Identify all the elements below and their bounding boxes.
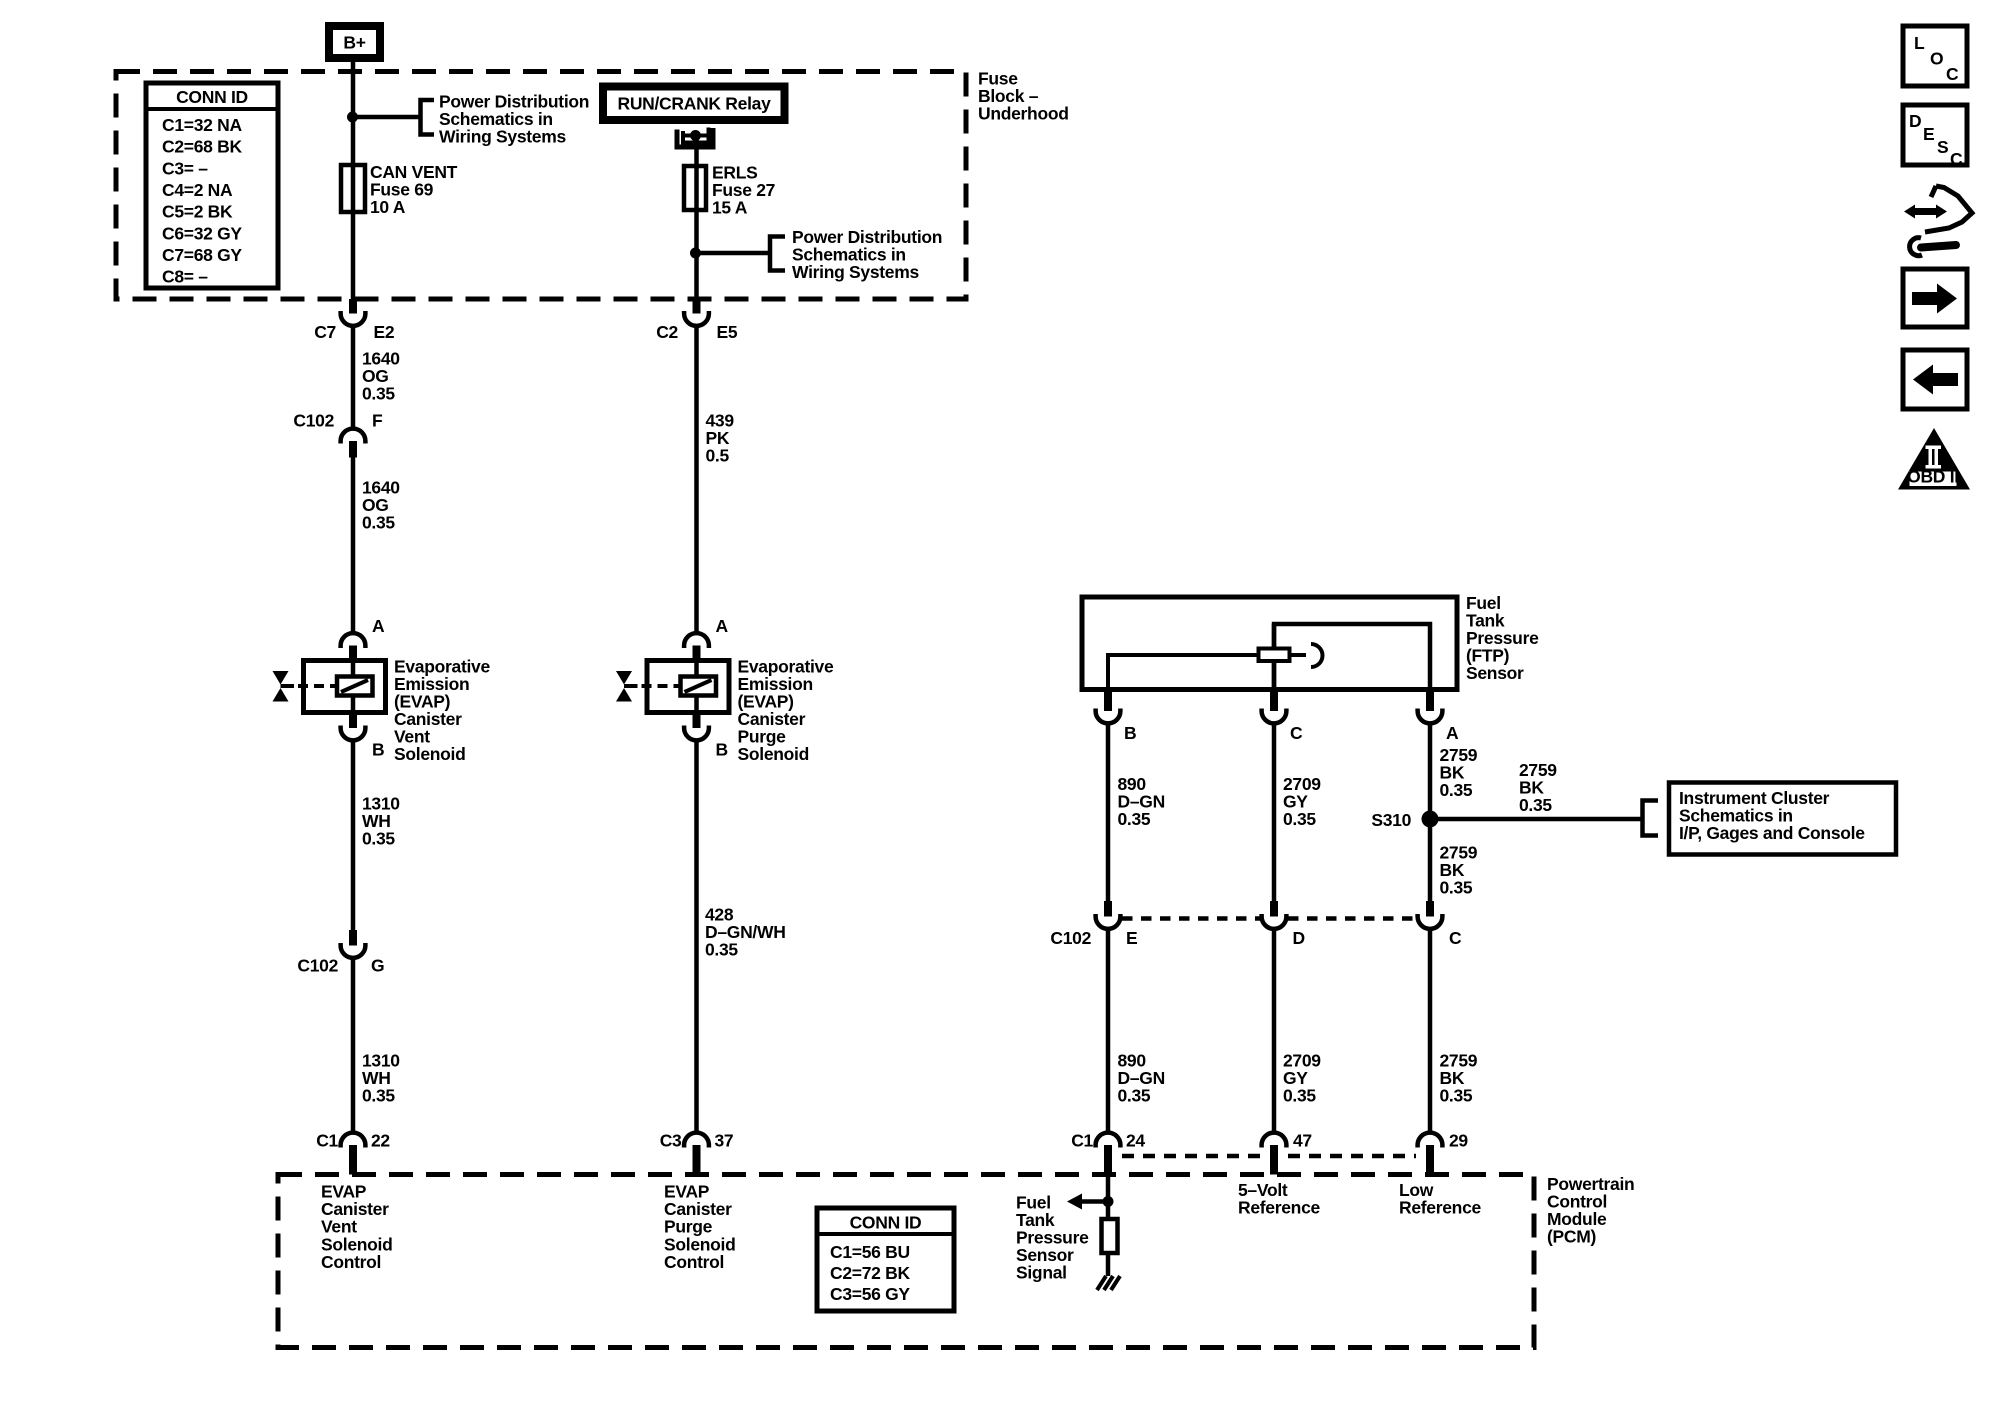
svg-text:C2: C2 — [656, 322, 678, 342]
svg-text:C3= –: C3= – — [162, 158, 208, 178]
svg-text:C102: C102 — [297, 956, 338, 976]
svg-text:Underhood: Underhood — [978, 104, 1069, 124]
svg-text:A: A — [716, 616, 729, 636]
svg-text:C1=32 NA: C1=32 NA — [162, 115, 242, 135]
svg-text:F: F — [372, 411, 383, 431]
svg-text:47: 47 — [1293, 1131, 1312, 1151]
svg-text:Signal: Signal — [1016, 1263, 1067, 1283]
svg-text:C: C — [1946, 64, 1959, 84]
svg-text:C1=56 BU: C1=56 BU — [830, 1242, 910, 1262]
svg-text:Control: Control — [321, 1252, 381, 1272]
svg-text:0.35: 0.35 — [1519, 795, 1552, 815]
svg-text:0.35: 0.35 — [1440, 780, 1473, 800]
svg-text:C2=68 BK: C2=68 BK — [162, 137, 242, 157]
svg-text:0.35: 0.35 — [362, 513, 395, 533]
svg-text:B+: B+ — [343, 33, 365, 53]
svg-text:D: D — [1909, 111, 1921, 131]
svg-text:G: G — [371, 956, 384, 976]
svg-text:Reference: Reference — [1399, 1198, 1481, 1218]
svg-text:C102: C102 — [1050, 928, 1091, 948]
svg-text:0.35: 0.35 — [705, 940, 738, 960]
svg-text:10 A: 10 A — [370, 197, 406, 217]
svg-text:Solenoid: Solenoid — [738, 744, 810, 764]
svg-text:E2: E2 — [374, 322, 395, 342]
svg-text:B: B — [372, 740, 384, 760]
svg-text:B: B — [716, 740, 728, 760]
svg-text:C3=56 GY: C3=56 GY — [830, 1284, 910, 1304]
svg-text:C1: C1 — [1071, 1131, 1093, 1151]
svg-text:0.35: 0.35 — [362, 829, 395, 849]
svg-text:0.35: 0.35 — [1283, 1086, 1316, 1106]
svg-text:L: L — [1914, 33, 1925, 53]
svg-text:Solenoid: Solenoid — [394, 744, 466, 764]
svg-text:C: C — [1950, 149, 1963, 169]
svg-text:C8= –: C8= – — [162, 267, 208, 287]
svg-text:C2=72 BK: C2=72 BK — [830, 1263, 910, 1283]
svg-text:C6=32 GY: C6=32 GY — [162, 223, 242, 243]
svg-text:0.35: 0.35 — [1118, 1086, 1151, 1106]
svg-text:S: S — [1937, 137, 1948, 157]
svg-text:I/P, Gages and Console: I/P, Gages and Console — [1679, 823, 1865, 843]
svg-text:CONN ID: CONN ID — [176, 87, 248, 107]
svg-text:0.35: 0.35 — [1440, 878, 1473, 898]
svg-text:Reference: Reference — [1238, 1198, 1320, 1218]
svg-text:E: E — [1923, 124, 1934, 144]
svg-text:S310: S310 — [1371, 810, 1411, 830]
svg-text:Wiring Systems: Wiring Systems — [792, 262, 919, 282]
svg-text:C: C — [1290, 723, 1303, 743]
svg-text:15 A: 15 A — [712, 198, 748, 218]
svg-text:Sensor: Sensor — [1466, 663, 1524, 683]
svg-text:B: B — [1124, 723, 1136, 743]
svg-text:0.35: 0.35 — [362, 384, 395, 404]
svg-text:0.35: 0.35 — [1283, 809, 1316, 829]
svg-text:24: 24 — [1126, 1131, 1145, 1151]
svg-text:C: C — [1449, 928, 1462, 948]
svg-text:0.35: 0.35 — [1118, 809, 1151, 829]
svg-text:Wiring Systems: Wiring Systems — [439, 127, 566, 147]
svg-text:C1: C1 — [316, 1131, 338, 1151]
svg-text:OBD II: OBD II — [1907, 467, 1959, 487]
svg-text:E: E — [1126, 928, 1137, 948]
svg-text:0.35: 0.35 — [362, 1086, 395, 1106]
svg-text:C102: C102 — [293, 411, 334, 431]
svg-text:22: 22 — [371, 1131, 390, 1151]
svg-text:A: A — [1446, 723, 1459, 743]
svg-text:0.35: 0.35 — [1440, 1086, 1473, 1106]
svg-text:37: 37 — [715, 1131, 734, 1151]
svg-text:(PCM): (PCM) — [1547, 1227, 1596, 1247]
svg-text:E5: E5 — [717, 322, 738, 342]
svg-text:0.5: 0.5 — [706, 446, 730, 466]
svg-text:C4=2 NA: C4=2 NA — [162, 180, 233, 200]
svg-text:Control: Control — [664, 1252, 724, 1272]
svg-text:D: D — [1293, 928, 1305, 948]
svg-text:A: A — [372, 616, 385, 636]
svg-text:CONN ID: CONN ID — [850, 1213, 922, 1233]
svg-text:C7=68 GY: C7=68 GY — [162, 245, 242, 265]
svg-text:C3: C3 — [660, 1131, 682, 1151]
svg-text:C7: C7 — [314, 322, 336, 342]
svg-text:O: O — [1930, 49, 1943, 69]
svg-text:RUN/CRANK Relay: RUN/CRANK Relay — [617, 94, 771, 114]
svg-text:29: 29 — [1449, 1131, 1468, 1151]
svg-text:C5=2 BK: C5=2 BK — [162, 202, 233, 222]
